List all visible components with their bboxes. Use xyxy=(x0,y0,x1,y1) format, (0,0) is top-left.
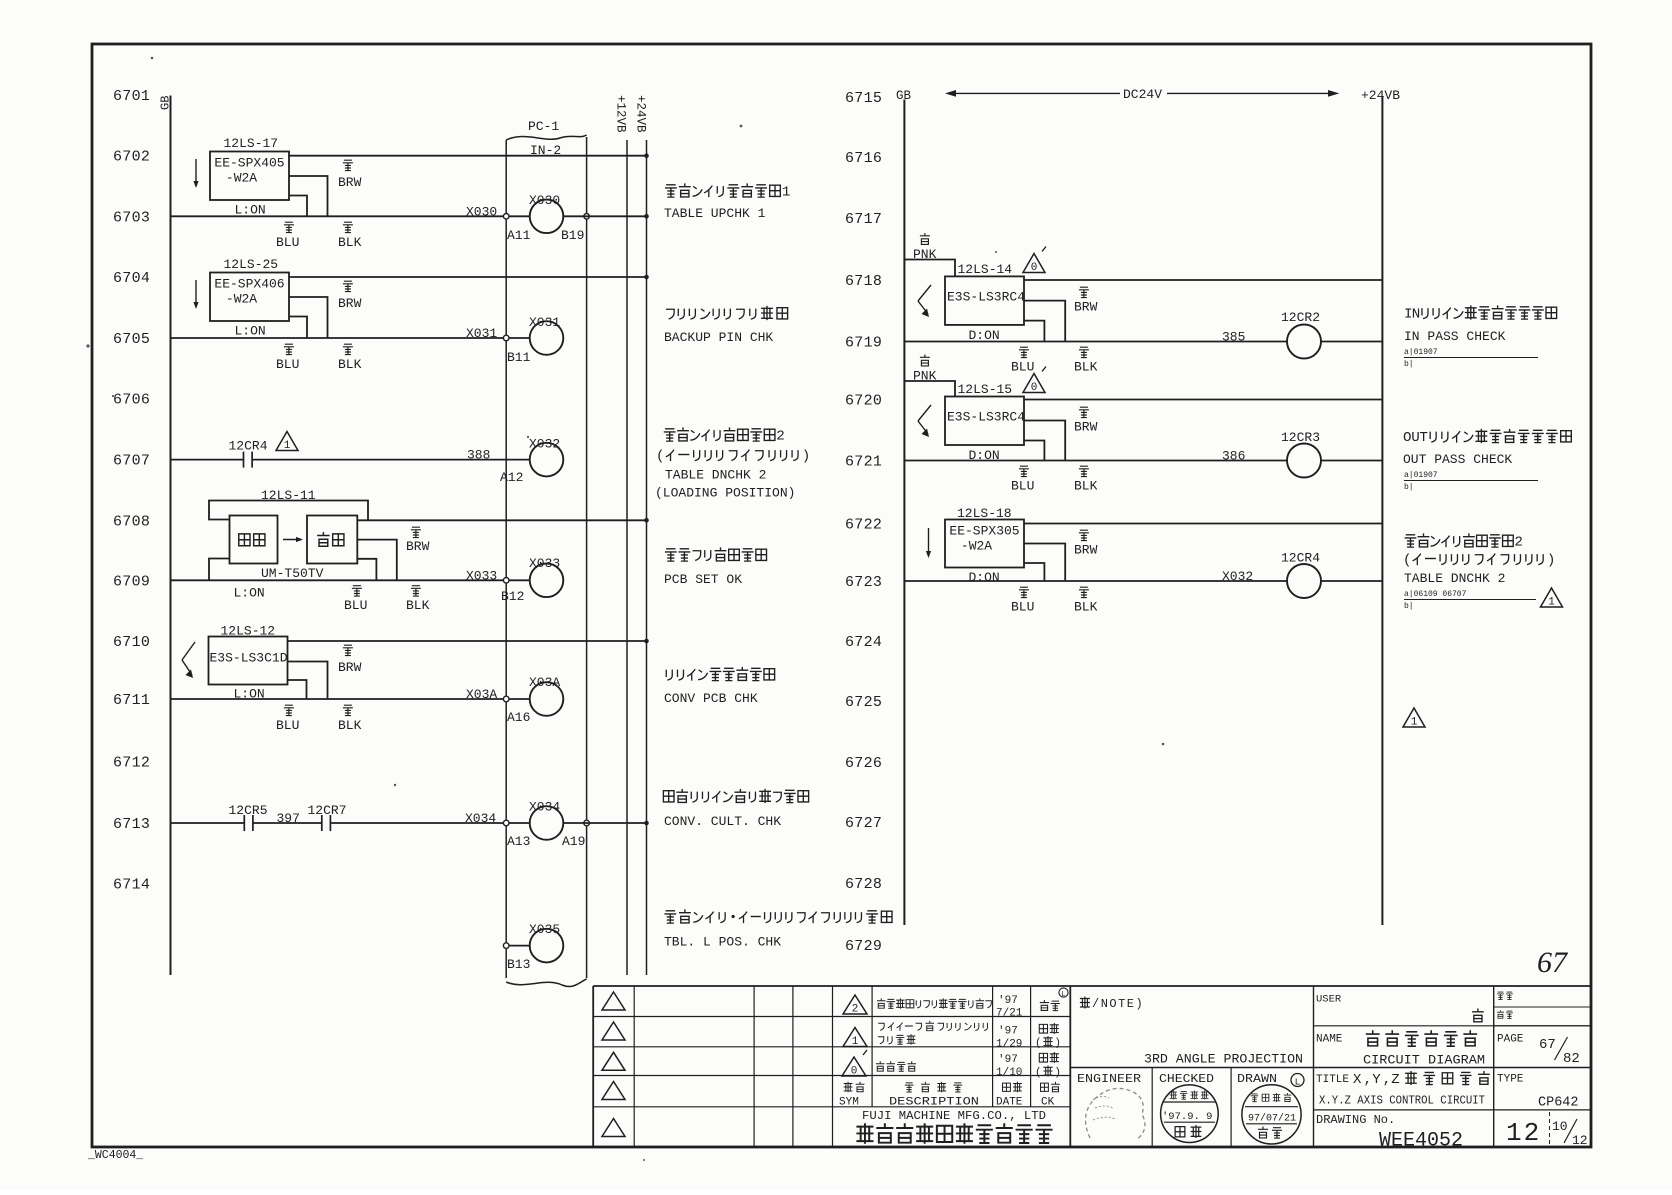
svg-text:6724: 6724 xyxy=(845,634,882,651)
svg-text:(: ( xyxy=(1035,1067,1042,1079)
revision header row xyxy=(844,1082,865,1093)
svg-text:6713: 6713 xyxy=(113,816,150,833)
label brown BRW (12LS-12) xyxy=(343,645,353,655)
relay coil X030 xyxy=(530,200,564,234)
svg-text:1/10: 1/10 xyxy=(996,1067,1022,1079)
svg-text:CONV PCB CHK: CONV PCB CHK xyxy=(664,691,758,706)
description rung 6704-6705: BACKUP PIN CHK xyxy=(666,306,788,320)
svg-text:TABLE DNCHK 2: TABLE DNCHK 2 xyxy=(665,468,766,483)
revision row 1: vacuum backup pin xyxy=(843,1028,867,1047)
svg-text:B13: B13 xyxy=(507,957,530,972)
svg-text:(: ( xyxy=(1035,1038,1042,1050)
svg-text:0: 0 xyxy=(1031,382,1038,394)
label black BLK (12LS-14) xyxy=(1079,347,1089,357)
wire 12LS-12 black xyxy=(288,662,328,700)
svg-text:12LS-25: 12LS-25 xyxy=(224,257,279,272)
label blue BLU (12LS-17) xyxy=(284,222,294,232)
label brown BRW (12LS-18) xyxy=(1079,530,1089,540)
svg-text:IN PASS CHECK: IN PASS CHECK xyxy=(1404,329,1506,344)
node A16 xyxy=(503,696,509,702)
rail +24VB xyxy=(646,140,648,975)
svg-text:X03A: X03A xyxy=(529,675,560,690)
label black BLK (12LS-12) xyxy=(343,705,353,715)
svg-text:OUT PASS CHECK: OUT PASS CHECK xyxy=(1403,452,1512,467)
sensor 12LS-12 chevron arrow xyxy=(182,642,195,660)
svg-text:E3S-LS3RC4: E3S-LS3RC4 xyxy=(947,289,1025,304)
revision record grid xyxy=(833,1016,1071,1018)
svg-text:6725: 6725 xyxy=(845,694,882,711)
svg-text:X030: X030 xyxy=(529,193,560,208)
svg-text:BLK: BLK xyxy=(1074,360,1098,375)
svg-text:BLU: BLU xyxy=(344,598,367,613)
svg-text:Z: Z xyxy=(1391,1072,1399,1088)
label blue BLU (12LS-18) xyxy=(1019,587,1029,597)
svg-text:67: 67 xyxy=(1537,946,1569,979)
svg-text:385: 385 xyxy=(1222,330,1245,345)
revision strip triangles xyxy=(602,992,625,1010)
svg-text:a|01907: a|01907 xyxy=(1404,348,1438,357)
svg-text:USER: USER xyxy=(1316,994,1342,1006)
svg-text:DC24V: DC24V xyxy=(1123,87,1162,102)
svg-text:A12: A12 xyxy=(500,470,523,485)
svg-text:(LOADING POSITION): (LOADING POSITION) xyxy=(655,486,795,501)
wire rung 6713 segment 3 xyxy=(330,822,506,824)
label blue BLU (12LS-14) xyxy=(1019,347,1029,357)
wire 12CR2 to +24VB xyxy=(1321,341,1382,343)
label black BLK (12LS-17) xyxy=(343,222,353,232)
svg-text:L: L xyxy=(1295,1077,1301,1088)
svg-text:X035: X035 xyxy=(529,922,560,937)
label black BLK (12LS-25) xyxy=(343,344,353,354)
wire B13 to X035 xyxy=(509,945,530,947)
node B13 xyxy=(503,943,509,949)
svg-text:'97: '97 xyxy=(998,1054,1018,1066)
svg-text:2: 2 xyxy=(776,429,785,445)
contact 12CR4 xyxy=(243,452,245,468)
svg-text:BRW: BRW xyxy=(338,660,362,675)
title block outer xyxy=(593,985,1591,987)
svg-text:BLU: BLU xyxy=(276,235,299,250)
warning triangle 0' (12LS-15) xyxy=(1023,374,1045,393)
svg-text:6728: 6728 xyxy=(845,876,882,893)
svg-text:-W2A: -W2A xyxy=(226,171,257,186)
svg-text:X032: X032 xyxy=(1222,569,1253,584)
label black BLK (12LS-15) xyxy=(1079,466,1089,476)
label brown BRW (12LS-11) xyxy=(411,527,421,537)
svg-text:): ) xyxy=(1054,1067,1061,1079)
svg-text:X034: X034 xyxy=(465,811,496,826)
svg-text:97/07/21: 97/07/21 xyxy=(1248,1113,1296,1125)
label brown BRW (12LS-15) xyxy=(1079,407,1089,417)
label pink PNK (12LS-14) xyxy=(920,233,930,244)
svg-text:+12VB: +12VB xyxy=(614,95,628,133)
svg-text:1: 1 xyxy=(852,1036,859,1048)
sensor 12LS-18 down arrow xyxy=(928,528,930,556)
svg-text:1: 1 xyxy=(782,185,791,201)
svg-text:b|: b| xyxy=(1404,483,1414,492)
relay coil 12CR3 xyxy=(1287,444,1321,478)
revision strip grid xyxy=(593,1016,832,1018)
svg-text:67: 67 xyxy=(1539,1037,1556,1053)
wire 12LS-12 blue xyxy=(288,680,307,699)
wire 12LS-17 blue xyxy=(289,196,307,217)
svg-text:1: 1 xyxy=(1411,717,1418,729)
svg-text:X03A: X03A xyxy=(466,687,497,702)
svg-text:PAGE: PAGE xyxy=(1497,1034,1524,1046)
wire 12LS-11 blue xyxy=(357,559,376,581)
svg-text:DRAWING No.: DRAWING No. xyxy=(1316,1113,1395,1127)
svg-text:6723: 6723 xyxy=(845,574,882,591)
node A19 xyxy=(584,820,590,826)
wire B11 to X031 xyxy=(509,337,530,339)
svg-text:+24VB: +24VB xyxy=(1361,88,1400,103)
relay coil X033 xyxy=(530,564,564,598)
svg-text:,: , xyxy=(1383,1072,1391,1088)
svg-text:'97.9. 9: '97.9. 9 xyxy=(1162,1111,1212,1123)
wire rung 6713 segment 2 xyxy=(253,822,322,824)
svg-text:6707: 6707 xyxy=(113,453,150,470)
svg-text:-W2A: -W2A xyxy=(961,539,992,554)
svg-text:6714: 6714 xyxy=(113,877,150,894)
svg-text:BLU: BLU xyxy=(276,718,299,733)
svg-text:BRW: BRW xyxy=(1074,420,1098,435)
svg-text:EE-SPX305: EE-SPX305 xyxy=(949,524,1019,539)
svg-text:+24VB: +24VB xyxy=(634,95,648,133)
svg-text:X033: X033 xyxy=(466,568,497,583)
node B19 xyxy=(584,214,590,220)
wire A11 to X030 xyxy=(509,215,530,217)
label blue BLU (12LS-25) xyxy=(284,344,294,354)
wire X034 to +24VB xyxy=(563,822,646,824)
label black BLK (12LS-18) xyxy=(1079,587,1089,597)
wire rung 6710 brown to +24VB xyxy=(288,640,647,642)
svg-text:6702: 6702 xyxy=(113,149,150,166)
power label DC24V with arrows xyxy=(945,90,956,97)
svg-text:BLK: BLK xyxy=(338,718,362,733)
sensor 12LS-11 receiver box xyxy=(307,516,357,564)
svg-text:X031: X031 xyxy=(466,326,497,341)
revision row 2: full sheet replacement xyxy=(843,995,867,1014)
relay coil X034 xyxy=(530,806,564,840)
svg-text:6711: 6711 xyxy=(113,692,150,709)
svg-text:6718: 6718 xyxy=(845,273,882,290)
svg-text:DESCRIPTION: DESCRIPTION xyxy=(889,1097,979,1109)
svg-text:-W2A: -W2A xyxy=(226,292,257,307)
svg-text:ENGINEER: ENGINEER xyxy=(1077,1072,1141,1086)
svg-text:6721: 6721 xyxy=(845,454,882,471)
svg-text:7/21: 7/21 xyxy=(996,1008,1023,1020)
svg-text:BLK: BLK xyxy=(338,357,362,372)
wire 12CR3 to +24VB xyxy=(1321,460,1382,462)
note area xyxy=(1070,1067,1591,1069)
relay coil 12CR2 xyxy=(1287,325,1321,359)
svg-text:E3S-LS3C1D: E3S-LS3C1D xyxy=(210,651,288,666)
wire 12LS-25 brown to top rung xyxy=(289,276,647,278)
bus +24VB (right) xyxy=(1381,96,1383,925)
svg-text:/NOTE): /NOTE) xyxy=(1092,997,1144,1011)
svg-text:_WC4004_: _WC4004_ xyxy=(87,1149,143,1162)
revision row 0: model revision xyxy=(842,1057,866,1076)
svg-text:6726: 6726 xyxy=(845,755,882,772)
svg-text:CP642: CP642 xyxy=(1538,1096,1579,1111)
wire rung 6709 xyxy=(171,579,507,581)
svg-text:12CR5: 12CR5 xyxy=(229,803,268,818)
svg-text:FUJI MACHINE MFG.CO., LTD: FUJI MACHINE MFG.CO., LTD xyxy=(862,1109,1046,1123)
wire rung 6713 segment 1 xyxy=(171,822,245,824)
svg-text:'97: '97 xyxy=(998,995,1018,1007)
svg-text:BRW: BRW xyxy=(338,175,362,190)
svg-text:b|: b| xyxy=(1404,602,1414,611)
svg-text:6712: 6712 xyxy=(113,755,150,772)
sensor 12LS-17 box xyxy=(210,152,289,201)
svg-text:12CR4: 12CR4 xyxy=(1281,551,1320,566)
label blue BLU (12LS-12) xyxy=(284,705,294,715)
wire rung 6708 brown to +24VB xyxy=(357,519,646,521)
svg-text:A16: A16 xyxy=(507,710,530,725)
bunban/seiban cells xyxy=(1493,986,1495,1147)
svg-text:BLK: BLK xyxy=(1074,479,1098,494)
label blue BLU (12LS-15) xyxy=(1019,466,1029,476)
svg-text:E3S-LS3RC4: E3S-LS3RC4 xyxy=(947,410,1025,425)
wire rung 6711 xyxy=(171,698,507,700)
wire A16 to X03A xyxy=(509,698,530,700)
relay coil X03A xyxy=(530,682,564,716)
svg-text:6715: 6715 xyxy=(845,90,882,107)
wire 12LS-15 black xyxy=(1024,421,1065,461)
contact 12CR7 xyxy=(321,815,323,831)
sensor 12LS-15 box xyxy=(945,397,1024,446)
wire rung 6723 xyxy=(904,580,1287,582)
svg-text:6708: 6708 xyxy=(113,513,150,530)
svg-text:CONV. CULT. CHK: CONV. CULT. CHK xyxy=(664,814,781,829)
description rung 6709: PCB SET OK xyxy=(665,547,767,561)
relay coil X035 xyxy=(530,929,564,963)
wire 12LS-18 black xyxy=(1024,544,1065,582)
svg-text:6716: 6716 xyxy=(845,150,882,167)
warning triangle 1 (row 6725) xyxy=(1403,708,1425,727)
wire 12LS-25 blue xyxy=(289,317,307,339)
svg-text:DATE: DATE xyxy=(996,1097,1023,1109)
svg-text:12LS-17: 12LS-17 xyxy=(224,136,279,151)
svg-text:DRAWN: DRAWN xyxy=(1237,1072,1277,1086)
svg-text:A19: A19 xyxy=(562,834,585,849)
svg-text:X030: X030 xyxy=(466,204,497,219)
wire 12LS-18 blue xyxy=(1024,563,1044,581)
svg-text:6719: 6719 xyxy=(845,335,882,352)
sensor 12LS-14 box xyxy=(945,276,1024,325)
svg-text:6722: 6722 xyxy=(845,517,882,534)
svg-text:12CR4: 12CR4 xyxy=(229,439,268,454)
wire rung 6722 xyxy=(1024,523,1382,525)
warning triangle 1 (TABLE DNCHK 2) xyxy=(1541,588,1563,607)
wire rung 6719 xyxy=(904,341,1287,343)
svg-text:12CR2: 12CR2 xyxy=(1281,310,1320,325)
svg-text:UM-T50TV: UM-T50TV xyxy=(261,566,324,581)
label brown BRW (12LS-14) xyxy=(1079,287,1089,297)
svg-text:,: , xyxy=(1364,1072,1372,1088)
svg-text:BLK: BLK xyxy=(406,598,430,613)
svg-text:0: 0 xyxy=(1031,262,1038,274)
relay coil X032 xyxy=(530,443,564,477)
svg-text:0: 0 xyxy=(851,1066,858,1078)
svg-text:): ) xyxy=(1547,553,1556,569)
warning triangle 0' (12LS-14) xyxy=(1023,254,1045,273)
wire 12LS-17 brown to top rung xyxy=(289,155,647,157)
wire rung 6705 xyxy=(171,337,507,339)
wire 12LS-17 black xyxy=(289,176,328,216)
svg-text:BLK: BLK xyxy=(338,235,362,250)
svg-text:6727: 6727 xyxy=(845,815,882,832)
svg-text:2: 2 xyxy=(852,1004,859,1016)
svg-text:B19: B19 xyxy=(561,228,584,243)
relay coil 12CR4 xyxy=(1287,564,1321,598)
svg-text:X.Y.Z AXIS CONTROL CIRCUIT: X.Y.Z AXIS CONTROL CIRCUIT xyxy=(1319,1094,1485,1108)
svg-text:(: ( xyxy=(1403,553,1412,569)
label black BLK (12LS-11) xyxy=(411,586,421,596)
svg-text:PCB SET OK: PCB SET OK xyxy=(664,572,742,587)
sensor 12LS-17 (EE-SPX405-W2A) with down arrow xyxy=(195,159,197,186)
engineer signature scribble xyxy=(1086,1088,1145,1140)
bus GB (left) xyxy=(170,96,172,976)
svg-text:TABLE UPCHK 1: TABLE UPCHK 1 xyxy=(664,206,766,221)
svg-text:WEE4052: WEE4052 xyxy=(1379,1130,1463,1153)
svg-text:X031: X031 xyxy=(529,315,560,330)
svg-text:D:ON: D:ON xyxy=(969,570,1000,585)
svg-text:6701: 6701 xyxy=(113,88,150,105)
svg-text:): ) xyxy=(1054,1038,1061,1050)
engineer/checked/drawn cells xyxy=(1151,1068,1153,1148)
rail +12VB xyxy=(626,140,628,975)
svg-text:BRW: BRW xyxy=(406,539,430,554)
svg-text:10: 10 xyxy=(1552,1119,1568,1134)
wire rung 6707 right segment xyxy=(252,459,530,461)
scan specks xyxy=(151,57,154,60)
svg-text:TBL. L POS. CHK: TBL. L POS. CHK xyxy=(664,935,781,950)
svg-text:TITLE: TITLE xyxy=(1316,1074,1349,1086)
wire rung 6720 xyxy=(1024,399,1382,401)
svg-text:GB: GB xyxy=(159,96,173,110)
sensor 12LS-18 box xyxy=(945,520,1024,568)
sensor 12LS-11 emitter box xyxy=(230,516,278,564)
svg-text:EE-SPX406: EE-SPX406 xyxy=(214,277,284,292)
description rung 6707: TABLE DNCHK 2 xyxy=(664,427,785,444)
sensor 12LS-25 box xyxy=(210,273,289,322)
wire A13 to X034 xyxy=(509,822,530,824)
description OUT PASS CHECK xyxy=(1403,429,1571,446)
node B11 xyxy=(503,335,509,341)
svg-text:6706: 6706 xyxy=(113,392,150,409)
contact 12CR5 xyxy=(243,815,245,831)
wire pink PNK from bus (12LS-14) xyxy=(904,260,955,277)
svg-text:L:ON: L:ON xyxy=(235,203,266,218)
svg-text:BLK: BLK xyxy=(1074,600,1098,615)
svg-text:CIRCUIT DIAGRAM: CIRCUIT DIAGRAM xyxy=(1363,1053,1485,1068)
svg-text:'97: '97 xyxy=(998,1026,1018,1038)
svg-text:X: X xyxy=(1353,1072,1362,1088)
sensor 12LS-25 (EE-SPX406-W2A) with down arrow xyxy=(195,280,197,307)
svg-text:L:ON: L:ON xyxy=(234,586,265,601)
connector PC-1 column xyxy=(505,140,507,978)
svg-text:82: 82 xyxy=(1563,1051,1580,1067)
description IN PASS CHECK xyxy=(1404,305,1557,322)
svg-text:1/29: 1/29 xyxy=(996,1039,1022,1051)
node B12 xyxy=(503,578,509,584)
svg-text:BRW: BRW xyxy=(1074,543,1098,558)
label brown BRW (12LS-25) xyxy=(343,281,353,291)
svg-text:BRW: BRW xyxy=(338,296,362,311)
svg-text:EE-SPX405: EE-SPX405 xyxy=(214,156,284,171)
drawn stamp xyxy=(1242,1085,1301,1144)
svg-text:a|06109 06707: a|06109 06707 xyxy=(1404,590,1467,599)
svg-text:CK: CK xyxy=(1041,1097,1055,1109)
label brown BRW (12LS-17) xyxy=(343,160,353,170)
wire X030 to +24VB xyxy=(563,215,646,217)
svg-text:B11: B11 xyxy=(507,350,531,365)
svg-text:N: N xyxy=(1412,307,1421,323)
description rung 6702-6703: TABLE UPCHK 1 xyxy=(665,183,790,200)
description rung 6711: CONV PCB CHK xyxy=(666,667,774,681)
svg-text:A13: A13 xyxy=(507,834,530,849)
svg-text:12CR3: 12CR3 xyxy=(1281,430,1320,445)
svg-text:1: 1 xyxy=(284,440,291,452)
svg-text:2: 2 xyxy=(1514,535,1523,551)
sensor 12LS-11 outer loop top xyxy=(209,501,368,521)
svg-text:a|01907: a|01907 xyxy=(1404,471,1438,480)
wire 12LS-14 black xyxy=(1024,301,1065,342)
svg-text:X033: X033 xyxy=(529,556,560,571)
wire rung 6718 xyxy=(1024,279,1382,281)
svg-text:6703: 6703 xyxy=(113,209,150,226)
label blue BLU (12LS-11) xyxy=(352,586,362,596)
svg-text:6717: 6717 xyxy=(845,211,882,228)
svg-text:TYPE: TYPE xyxy=(1497,1074,1524,1086)
svg-text:BACKUP PIN CHK: BACKUP PIN CHK xyxy=(664,330,773,345)
svg-text:1: 1 xyxy=(1548,597,1555,609)
svg-text:6704: 6704 xyxy=(113,270,150,287)
wire rung 6707 left segment xyxy=(171,459,244,461)
svg-text:TABLE DNCHK 2: TABLE DNCHK 2 xyxy=(1404,571,1505,586)
svg-text:BRW: BRW xyxy=(1074,300,1098,315)
svg-text:(: ( xyxy=(656,449,665,465)
svg-text:L:ON: L:ON xyxy=(235,324,266,339)
svg-text:12CR7: 12CR7 xyxy=(308,803,347,818)
node A13 xyxy=(503,820,509,826)
svg-text:12LS-15: 12LS-15 xyxy=(958,382,1013,397)
svg-text:NAME: NAME xyxy=(1316,1034,1343,1046)
circled L (drawn) xyxy=(1291,1074,1304,1087)
sensor 12LS-15 chevron arrow xyxy=(918,405,931,421)
svg-text:Y: Y xyxy=(1372,1072,1381,1088)
svg-text:3RD ANGLE PROJECTION: 3RD ANGLE PROJECTION xyxy=(1144,1052,1303,1067)
svg-text:6705: 6705 xyxy=(113,331,150,348)
svg-text:BLU: BLU xyxy=(1011,479,1034,494)
svg-text:6720: 6720 xyxy=(845,393,882,410)
svg-text:388: 388 xyxy=(467,448,490,463)
sensor 12LS-14 chevron arrow xyxy=(918,285,931,301)
svg-text:6709: 6709 xyxy=(113,573,150,590)
svg-text:T: T xyxy=(1419,430,1428,446)
warning triangle 1 (rung 6707) xyxy=(276,432,298,451)
wire pink PNK from bus (12LS-15) xyxy=(904,381,955,397)
wire 12LS-15 blue xyxy=(1024,441,1044,461)
wire 12LS-25 black xyxy=(289,297,328,338)
wire 12LS-14 blue xyxy=(1024,321,1044,342)
svg-text:BLU: BLU xyxy=(1011,600,1034,615)
name row xyxy=(1314,1025,1592,1027)
svg-text:): ) xyxy=(802,449,811,465)
wire rung 6703 xyxy=(171,215,507,217)
wire B12 to X033 xyxy=(509,579,530,581)
